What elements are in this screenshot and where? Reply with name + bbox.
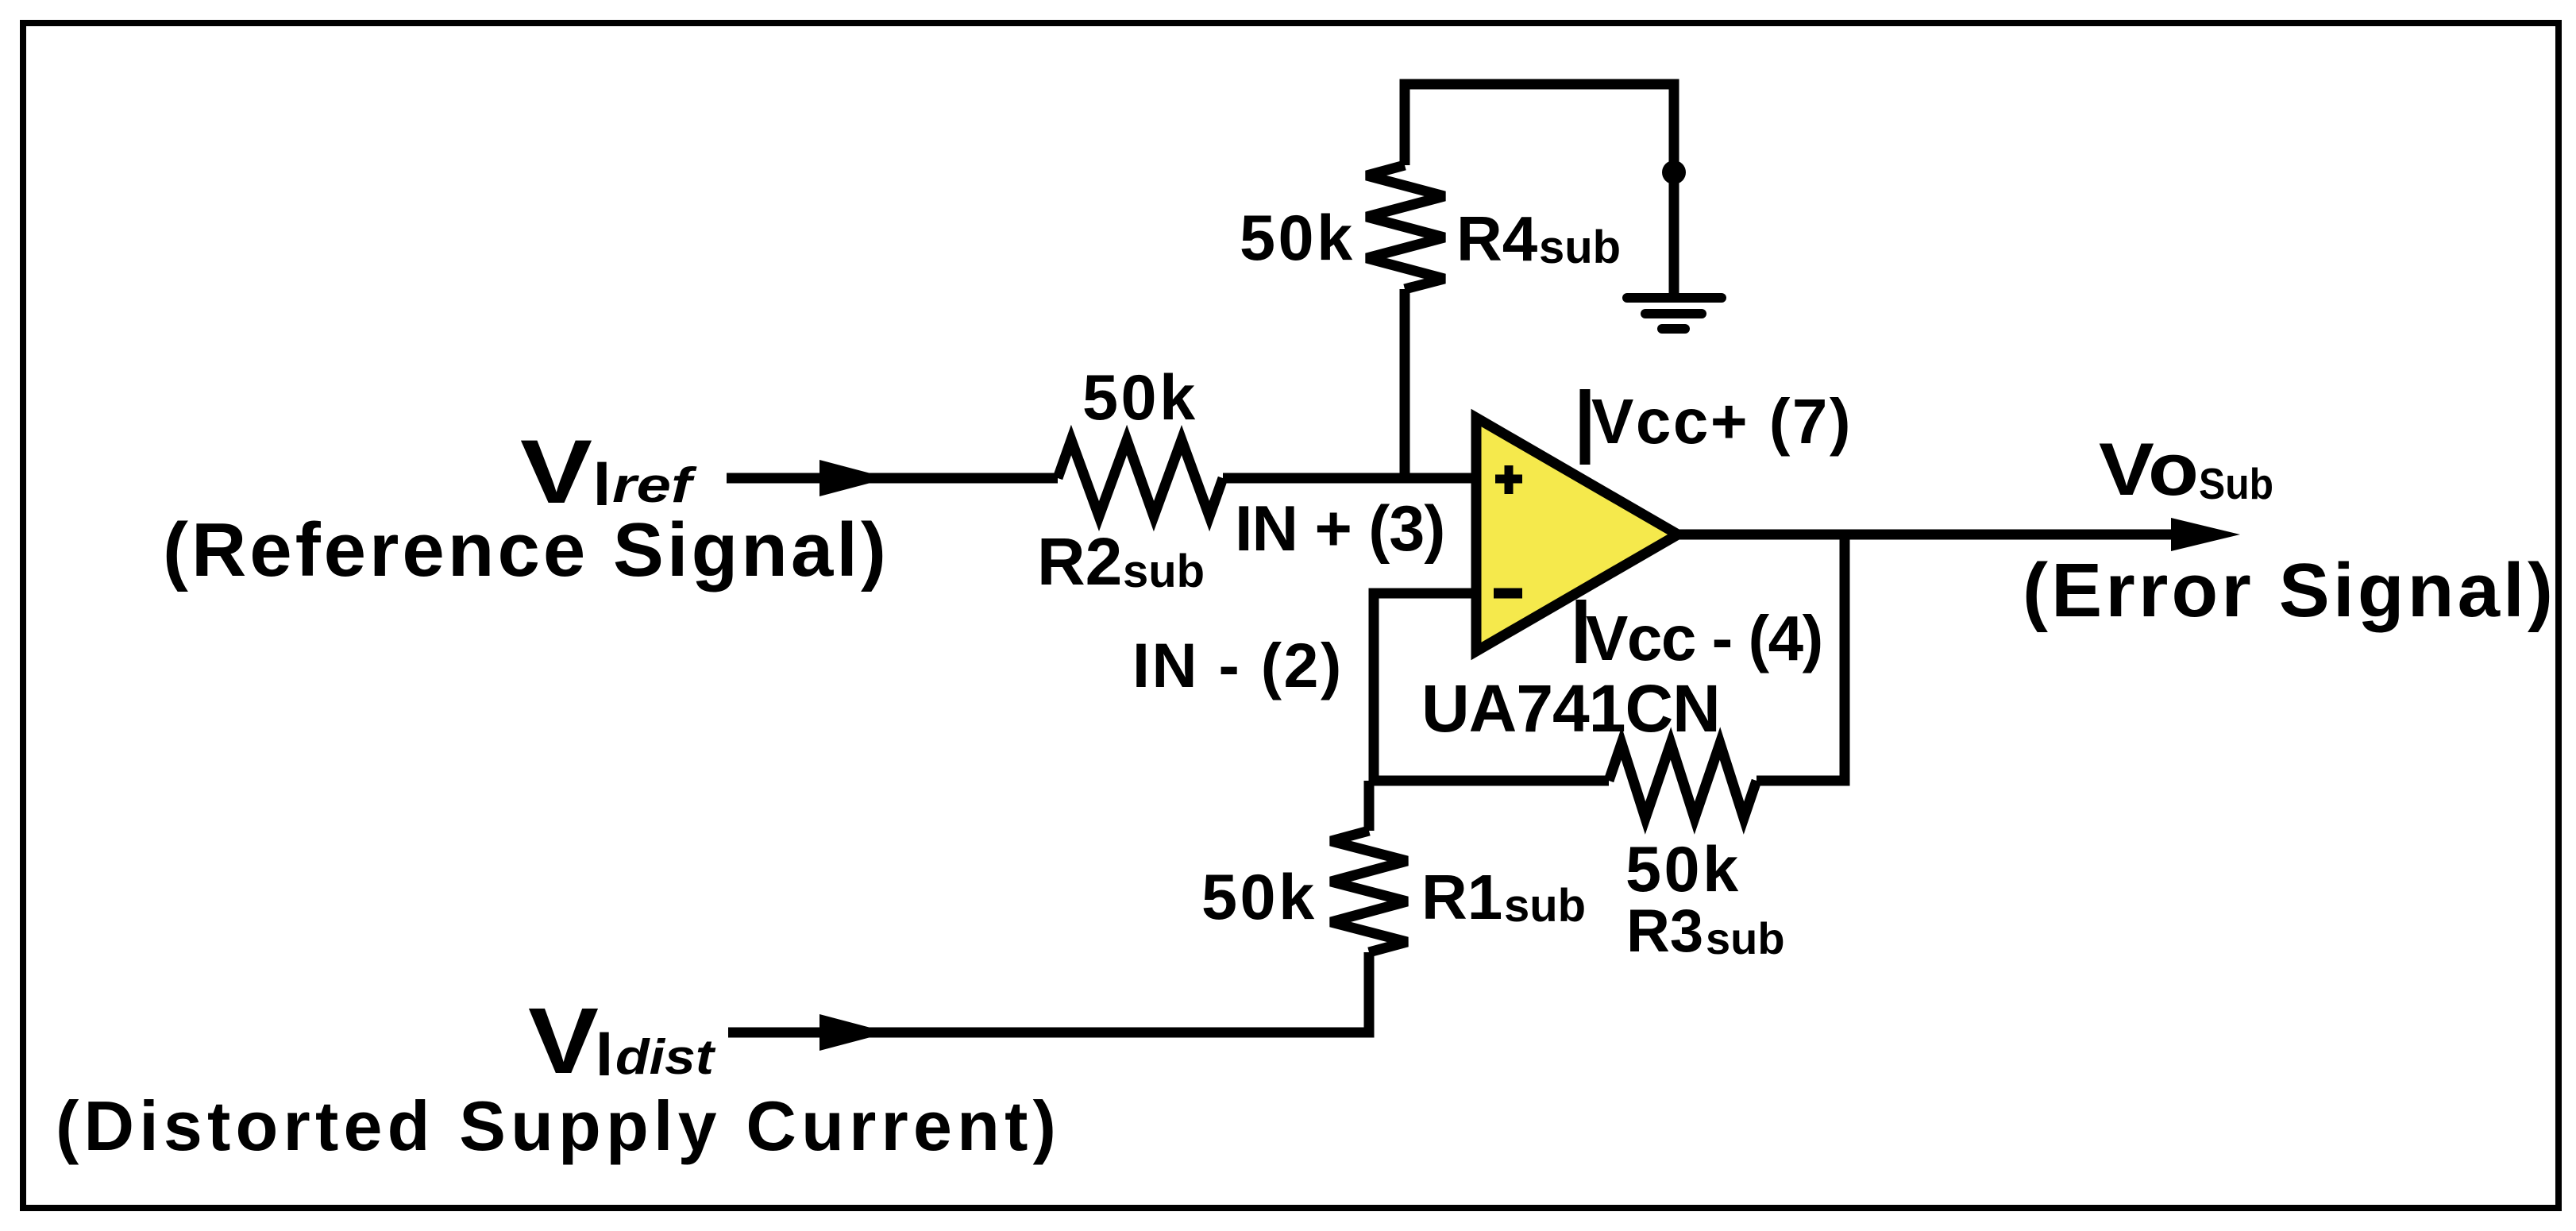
resistor R1sub zigzag — [1331, 831, 1407, 952]
svg-text:I: I — [596, 1018, 613, 1089]
svg-text:R3: R3 — [1626, 897, 1703, 965]
svg-text:V: V — [528, 989, 599, 1094]
wire: R2 to op-amp IN+ — [1223, 473, 1474, 484]
svg-text:Sub: Sub — [2199, 459, 2273, 508]
svg-text:sub: sub — [1123, 546, 1205, 597]
svg-text:Vcc+ (7): Vcc+ (7) — [1591, 386, 1853, 457]
op-amp plus symbol — [1495, 465, 1522, 494]
svg-text:sub: sub — [1706, 913, 1785, 963]
resistor R4sub zigzag — [1367, 165, 1444, 289]
wire: R4 bottom lead to IN+ node — [1400, 289, 1410, 478]
svg-text:50k: 50k — [1082, 362, 1198, 434]
svg-text:50k: 50k — [1240, 203, 1355, 274]
wire: VIref input line — [727, 473, 1058, 484]
wire: R1 top lead — [1364, 781, 1375, 831]
wire: feedback horizontal right part + vertical to output — [1757, 534, 1845, 781]
wire: IN- from op-amp to corner — [1374, 593, 1474, 781]
resistor R2sub zigzag — [1058, 440, 1223, 516]
svg-text:50k: 50k — [1625, 834, 1741, 905]
svg-text:ref: ref — [612, 458, 697, 513]
svg-text:IN - (2): IN - (2) — [1132, 630, 1344, 700]
svg-text:(Error Signal): (Error Signal) — [2023, 548, 2556, 633]
wire: output — [1678, 530, 2184, 540]
svg-text:UA741CN: UA741CN — [1421, 671, 1720, 746]
Vcc- pin line — [1576, 600, 1587, 663]
wire: feedback horizontal left part — [1369, 776, 1609, 786]
junction dot — [1662, 160, 1686, 184]
svg-text:sub: sub — [1504, 880, 1586, 932]
wire: R1 bottom lead and VIdist input line — [728, 952, 1369, 1032]
arrowhead on VIdist input — [819, 1014, 889, 1051]
svg-text:R2: R2 — [1037, 524, 1122, 599]
arrowhead on VIref input — [819, 460, 889, 496]
Vcc+ pin line — [1580, 389, 1591, 465]
svg-text:R1: R1 — [1421, 862, 1502, 932]
arrowhead on output — [2171, 518, 2240, 551]
svg-text:R4: R4 — [1456, 203, 1538, 274]
svg-text:dist: dist — [615, 1030, 716, 1085]
svg-text:Vo: Vo — [2099, 427, 2199, 511]
svg-text:50k: 50k — [1201, 862, 1317, 933]
ground — [1627, 298, 1722, 329]
svg-text:IN + (3): IN + (3) — [1235, 493, 1444, 565]
svg-text:(Distorted Supply Current): (Distorted Supply Current) — [56, 1086, 1061, 1165]
wire: R4 top lead, top loop and right vertical to ground — [1405, 84, 1674, 298]
op-amp minus symbol — [1494, 588, 1522, 599]
op-amp U1 triangle — [1476, 418, 1678, 651]
svg-text:Vcc - (4): Vcc - (4) — [1586, 603, 1822, 673]
svg-text:sub: sub — [1539, 222, 1621, 273]
svg-text:(Reference Signal): (Reference Signal) — [163, 507, 889, 592]
resistor R3sub zigzag — [1609, 743, 1757, 818]
